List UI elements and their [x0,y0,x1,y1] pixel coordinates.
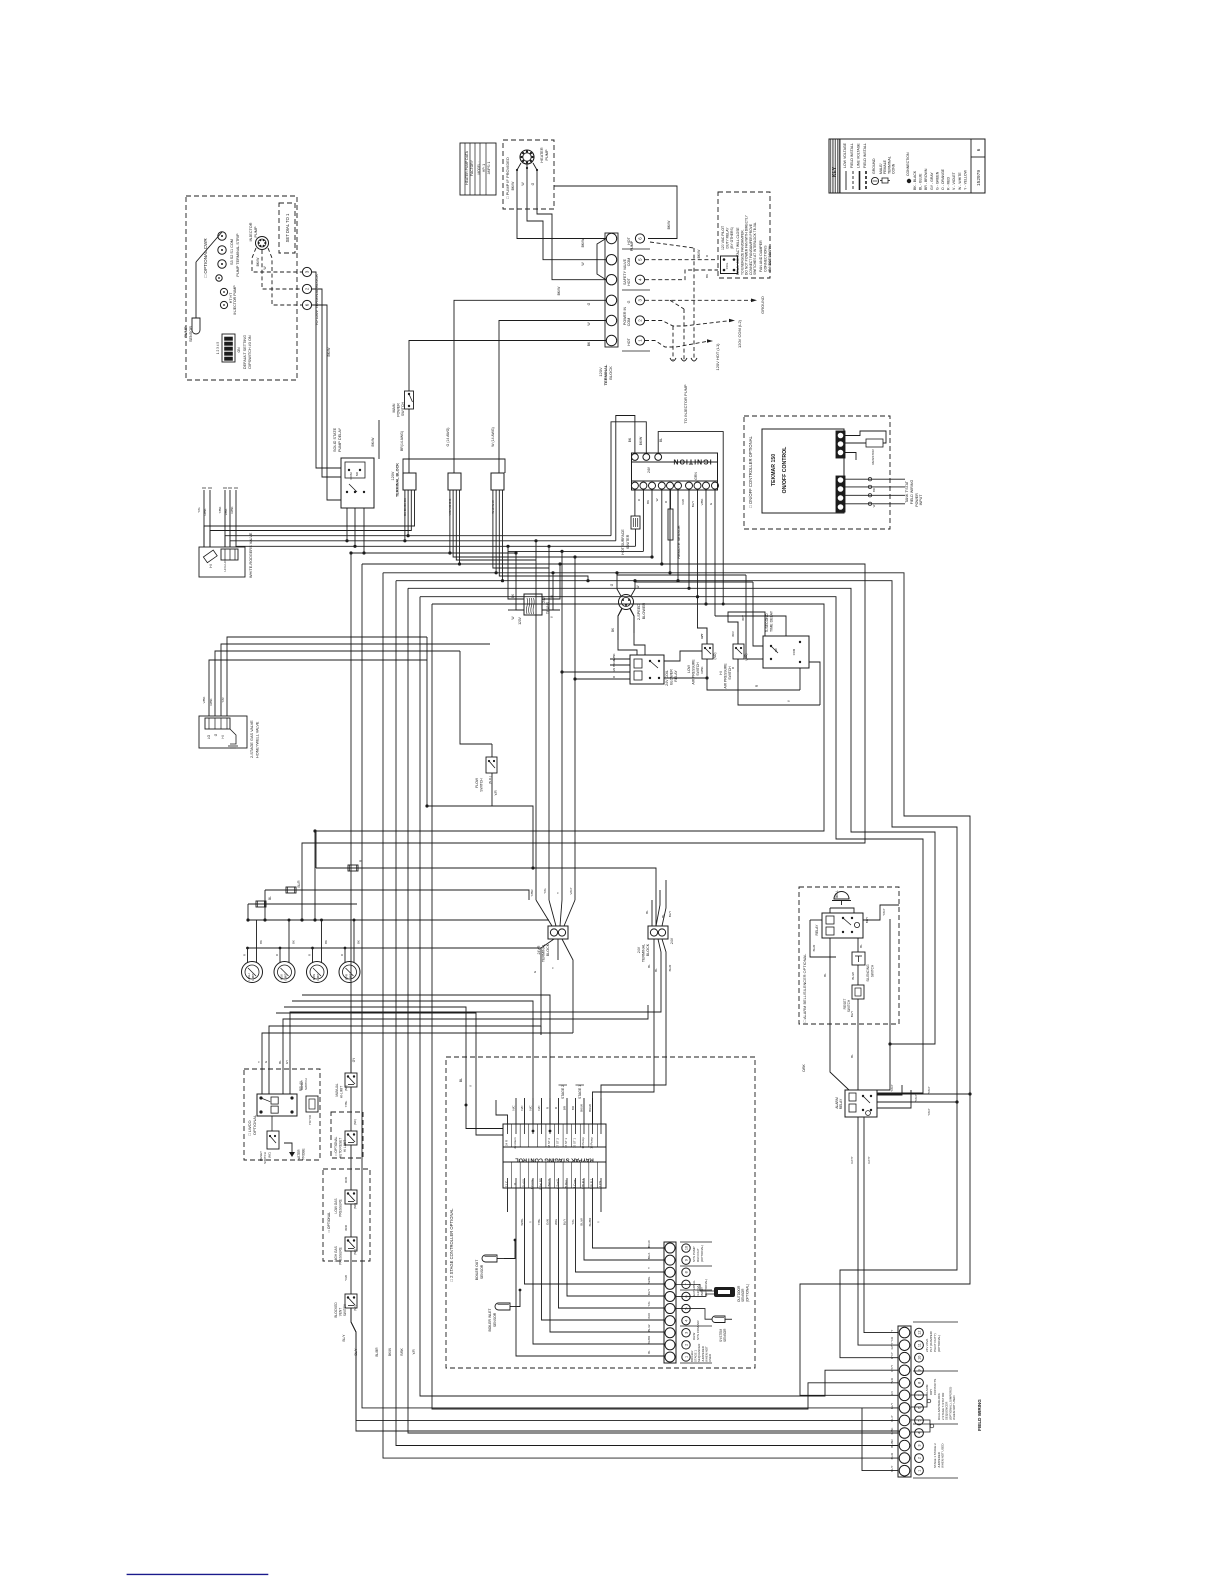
svg-text:GROUND: GROUND [760,296,765,314]
svg-text:BK: BK [292,940,296,944]
svg-text:GRN: GRN [694,472,698,480]
svg-text:2: 2 [305,287,310,290]
svg-text:BELL: BELL [835,890,839,898]
svg-text:SYS COM AIR: SYS COM AIR [696,1320,700,1340]
svg-text:SWITCH: SWITCH [263,1152,267,1164]
svg-text:1 2 3 4 5: 1 2 3 4 5 [216,342,220,355]
svg-text:1: 1 [918,1470,922,1472]
svg-text:COM: COM [349,472,353,480]
svg-text:G (14 AWG): G (14 AWG) [446,428,450,447]
svg-text:N/C: N/C [537,1105,541,1111]
svg-text:SWITCH: SWITCH [304,1078,308,1090]
svg-text:15 ST 1: 15 ST 1 [573,1138,577,1148]
svg-text:Y/BL: Y/BL [537,1218,541,1225]
svg-text:CONN: CONN [892,163,896,174]
svg-text:(NO): (NO) [713,653,717,660]
svg-text:BL: BL [850,1054,854,1058]
svg-text:(OPTIONAL): (OPTIONAL) [704,1279,708,1296]
svg-text:HONEYWELL VALVE: HONEYWELL VALVE [255,721,259,758]
svg-text:Y/W: Y/W [344,1275,348,1281]
svg-text:INJECTOR PUMP: INJECTOR PUMP [233,285,237,315]
svg-text:HI: HI [209,564,213,567]
svg-text:Y - YELLOW: Y - YELLOW [963,169,967,190]
svg-text:□ PUMP IF PROVIDED: □ PUMP IF PROVIDED [505,157,510,199]
svg-text:DUTY RELAY: DUTY RELAY [726,227,730,249]
svg-text:RELAY: RELAY [815,924,819,936]
svg-text:W: W [655,498,659,501]
svg-text:CONNECTION: CONNECTION [906,152,910,176]
svg-text:24V: 24V [647,466,651,473]
svg-text:FIELD INSTALL: FIELD INSTALL [863,143,867,168]
svg-text:R: R [308,954,312,956]
svg-text:24VR: 24VR [537,945,541,954]
svg-text:MAIN: MAIN [392,403,396,412]
svg-text:TO 120V TERMINAL BLOCK: TO 120V TERMINAL BLOCK [314,274,319,326]
svg-text:10: 10 [685,1246,689,1250]
svg-text:SWITCHES AT INTERLOCK TB-5A.: SWITCHES AT INTERLOCK TB-5A. [753,222,757,275]
svg-text:SWITCH: SWITCH [343,1303,347,1316]
svg-text:BL/Y: BL/Y [850,1011,854,1018]
svg-text:8: 8 [918,1382,922,1384]
svg-text:HOT: HOT [627,337,631,345]
svg-text:TO INJECTOR PUMP: TO INJECTOR PUMP [683,384,688,424]
svg-text:BL: BL [645,910,649,914]
svg-text:MODEL :: MODEL : [477,161,481,174]
svg-text:Y: Y [556,892,560,894]
svg-text:CONNECTIONS: CONNECTIONS [764,245,768,272]
svg-text:HOT: HOT [627,277,631,285]
svg-text:NC: NC [774,648,778,652]
svg-text:COIL: COIL [725,262,729,269]
svg-text:Y/G: Y/G [647,1301,651,1307]
svg-text:W (14 AWG): W (14 AWG) [491,427,495,447]
svg-text:10: 10 [918,1356,922,1360]
svg-text:8: 8 [685,1271,689,1273]
svg-text:Y/BR: Y/BR [530,889,534,897]
svg-text:SILENCING: SILENCING [866,964,870,982]
svg-text:BLOCKED: BLOCKED [334,1302,338,1318]
svg-text:ON/OFF CONTROL: ON/OFF CONTROL [782,446,788,494]
svg-text:BK/W: BK/W [256,257,260,266]
svg-text:V/BK: V/BK [700,499,704,506]
svg-text:WHEN NOT USED: WHEN NOT USED [941,1443,945,1468]
svg-text:24 R: 24 R [505,1140,509,1146]
svg-text:6 Sys/S: 6 Sys/S [556,1179,560,1189]
svg-text:S3 S2 S1 COM: S3 S2 S1 COM [230,239,234,265]
svg-text:Y: Y [551,967,555,969]
svg-text:BOILER OUT: BOILER OUT [475,1260,479,1281]
svg-text:DEFAULT SETTING: DEFAULT SETTING [243,335,247,369]
svg-text:BLOWER: BLOWER [642,603,646,620]
svg-text:□ OPTIONAL CWR: □ OPTIONAL CWR [203,238,208,278]
svg-text:BK/W: BK/W [639,436,643,445]
svg-text:BL: BL [647,964,651,968]
svg-text:PROBE: PROBE [302,1148,306,1159]
svg-text:LIMIT: LIMIT [349,973,353,980]
svg-text:BK/A: BK/A [647,1253,651,1260]
svg-text:BL: BL [268,896,272,900]
svg-text:BL/W: BL/W [580,1218,584,1226]
svg-text:(NC): (NC) [268,1152,272,1158]
svg-text:BL: BL [647,1350,651,1354]
svg-text:PRESSURE: PRESSURE [339,1199,343,1217]
svg-text:BL: BL [654,968,658,972]
svg-text:VENT: VENT [339,1308,343,1317]
svg-text:V - VIOLET: V - VIOLET [952,171,956,190]
svg-text:R: R [340,954,344,956]
svg-text:PUMP TERMINAL STRIP: PUMP TERMINAL STRIP [236,233,240,277]
svg-text:SENSOR: SENSOR [493,1312,497,1327]
svg-text:SWITCH: SWITCH [847,999,851,1012]
svg-text:SET DIAL TO 1: SET DIAL TO 1 [285,213,290,242]
svg-text:OPTIONAL: OPTIONAL [252,1114,257,1135]
svg-text:BL - BLUE: BL - BLUE [919,173,923,190]
svg-text:G - GREEN: G - GREEN [935,171,939,190]
svg-text:PUMP: PUMP [254,226,258,237]
svg-text:POWER: POWER [397,403,401,417]
svg-text:Y/R: Y/R [494,790,498,796]
svg-text:11: 11 [513,1182,517,1185]
svg-text:FAN AND DAMPER: FAN AND DAMPER [759,240,763,272]
svg-text:(N.O.): (N.O.) [488,776,492,784]
svg-text:SENSOR: SENSOR [723,1328,727,1342]
svg-text:W/BL: W/BL [647,1276,651,1283]
svg-text:N/C: N/C [529,1105,533,1111]
svg-text:Y: Y [257,1061,261,1063]
svg-text:16 ST 1: 16 ST 1 [564,1138,568,1148]
svg-text:RAYPAK STAGING CONTROL: RAYPAK STAGING CONTROL [515,1157,594,1163]
svg-text:BLOCK: BLOCK [646,943,650,956]
svg-text:BK/W: BK/W [581,238,585,247]
svg-text:Y/GY: Y/GY [914,1094,918,1101]
svg-text:TERMINAL BLOCK: TERMINAL BLOCK [396,463,400,497]
svg-text:(NO): (NO) [353,1203,357,1209]
svg-text:BLOCK: BLOCK [608,366,613,380]
svg-text:TERMINAL: TERMINAL [642,944,646,962]
svg-text:W: W [872,504,876,507]
svg-text:ON: ON [237,347,241,353]
svg-text:BK/W: BK/W [371,437,375,447]
svg-text:3: 3 [305,270,310,273]
svg-text:R/BK: R/BK [230,506,234,513]
svg-text:Y: Y [647,1267,651,1269]
svg-text:Y/GY: Y/GY [890,1084,894,1091]
svg-text:WHITE-RODGERS VALVE: WHITE-RODGERS VALVE [249,532,253,578]
svg-text:(NC): (NC) [353,1249,357,1255]
svg-text:BL/W: BL/W [647,1324,651,1331]
svg-text:□ OPTIONAL: □ OPTIONAL [327,1212,331,1232]
svg-text:5 Out: 5 Out [564,1180,568,1187]
svg-text:R/BK: R/BK [203,508,207,515]
svg-text:4: 4 [685,1320,689,1322]
svg-text:W: W [511,616,515,619]
svg-text:GY/Y: GY/Y [890,1365,894,1372]
svg-text:BK: BK [705,274,709,278]
svg-text:CONTACTS: CONTACTS [933,1379,937,1395]
svg-text:LIMIT: LIMIT [316,973,320,980]
svg-text:HI-LIMIT: HI-LIMIT [340,1086,344,1098]
svg-text:BL/BR: BL/BR [890,1439,894,1447]
svg-text:LOW VOLTAGE: LOW VOLTAGE [843,142,847,168]
svg-text:□ 2 STAGE CONTROLLER OPTIONAL: □ 2 STAGE CONTROLLER OPTIONAL [449,1208,454,1282]
svg-text:COM: COM [627,258,631,266]
svg-text:GY/Y Y/R: GY/Y Y/R [890,1337,894,1349]
svg-text:BL/Y: BL/Y [668,911,672,918]
svg-text:17 ST 2: 17 ST 2 [556,1138,560,1148]
svg-text:120V COM (L2): 120V COM (L2) [737,319,742,348]
svg-text:HIGH GAS: HIGH GAS [334,1246,338,1262]
svg-text:DIPSWITCH #3 ON: DIPSWITCH #3 ON [248,335,252,369]
svg-text:HEATER: HEATER [540,147,544,162]
svg-text:BK: BK [259,940,263,944]
svg-text:12: 12 [918,1330,922,1334]
svg-text:1: 1 [685,1356,689,1358]
svg-text:STAGE 1: STAGE 1 [578,1085,582,1099]
svg-text:BR - BROWN: BR - BROWN [924,168,928,190]
svg-text:BK: BK [357,940,361,944]
svg-text:152979: 152979 [976,170,982,186]
svg-text:R/W: R/W [344,1177,348,1183]
svg-text:Y/GY: Y/GY [927,1108,931,1115]
svg-text:N/C: N/C [520,1105,524,1111]
svg-text:□ OPTIONAL: □ OPTIONAL [334,1136,338,1155]
svg-text:R - RED: R - RED [947,177,951,191]
svg-text:BK/W: BK/W [388,1348,392,1356]
svg-text:USED: USED [708,1354,712,1362]
svg-text:SENSOR: SENSOR [189,326,193,342]
svg-text:HI: HI [221,735,225,738]
svg-text:Y: Y [890,1330,894,1332]
svg-text:RELAY: RELAY [674,670,678,682]
svg-text:1 CS: 1 CS [598,1181,602,1187]
svg-text:GY - GRAY: GY - GRAY [930,172,934,190]
svg-text:24V: 24V [670,937,674,944]
svg-text:FIELD INSTALL: FIELD INSTALL [850,143,854,168]
svg-text:Y/R: Y/R [412,1349,416,1355]
svg-text:4 Com: 4 Com [573,1179,577,1188]
svg-text:BR: BR [872,488,876,492]
svg-text:GN: GN [612,668,616,673]
svg-text:R/Y: R/Y [700,633,704,638]
svg-text:HOT SURFACE: HOT SURFACE [621,529,625,555]
svg-text:BL/Y: BL/Y [647,1289,651,1295]
svg-text:BLOCK: BLOCK [546,943,550,956]
svg-text:FIELD WIRING: FIELD WIRING [910,480,914,505]
svg-text:AMPS: 1: AMPS: 1 [487,161,491,174]
svg-text:W/G: W/G [554,1218,558,1225]
svg-text:Y: Y [529,1221,533,1223]
svg-text:V/BK: V/BK [224,509,228,516]
svg-text:3: 3 [685,1332,689,1334]
svg-text:TANK T'STAT: TANK T'STAT [905,480,909,503]
svg-text:BL/BR: BL/BR [375,1347,379,1357]
svg-text:120V: 120V [518,616,522,624]
svg-text:SAFETY VALVE: SAFETY VALVE [623,258,627,285]
svg-text:G: G [531,182,535,185]
svg-text:BK/W: BK/W [511,181,515,190]
svg-text:BLOWER: BLOWER [670,669,674,685]
svg-text:HI G LO: HI G LO [223,560,227,572]
svg-text:PUMP: PUMP [545,149,549,160]
svg-text:BK/W: BK/W [612,659,616,667]
svg-text:BK/W: BK/W [327,347,331,357]
svg-text:INJECTOR: INJECTOR [249,222,253,241]
svg-text:SOLID STATE: SOLID STATE [333,427,337,452]
svg-text:GY/Y: GY/Y [850,1156,854,1163]
svg-text:TEKMAR 150: TEKMAR 150 [771,454,777,486]
svg-text:BL/R: BL/R [668,964,672,972]
svg-text:AIR PRESSURE: AIR PRESSURE [692,659,696,685]
svg-text:W/O: W/O [647,1312,651,1319]
svg-text:BL/BR: BL/BR [647,1336,651,1344]
svg-text:FACTORY: FACTORY [470,159,474,176]
svg-text:24V: 24V [637,946,641,953]
svg-text:BL/Y: BL/Y [342,1334,346,1342]
svg-text:PUMP DELAY: PUMP DELAY [338,427,342,452]
svg-text:BL: BL [278,1060,282,1064]
svg-text:BK/W: BK/W [647,1240,651,1248]
svg-text:FLOW: FLOW [475,777,479,788]
svg-text:R: R [243,954,247,956]
svg-text:Y/BL: Y/BL [344,1100,348,1107]
svg-text:BL/Y: BL/Y [563,1219,567,1226]
svg-text:AUTO RESET: AUTO RESET [339,1138,343,1158]
svg-text:BL/BR: BL/BR [588,1217,592,1227]
svg-text:Y/G: Y/G [197,507,201,513]
svg-text:BL: BL [661,914,665,918]
svg-text:18 ST 2: 18 ST 2 [547,1138,551,1148]
svg-text:SWITCH: SWITCH [401,402,405,417]
svg-text:(NC): (NC) [353,1305,357,1311]
svg-text:COM: COM [792,648,796,655]
svg-text:W/V: W/V [731,631,735,637]
svg-text:BL: BL [459,1078,463,1082]
svg-text:(NC): (NC) [353,1119,357,1125]
svg-text:COM: COM [627,318,631,326]
svg-text:PUMP: PUMP [184,326,188,337]
svg-text:14 Pump: 14 Pump [581,1137,585,1149]
svg-text:10 +(V): 10 +(V) [522,1179,526,1189]
svg-text:R/BK: R/BK [400,1347,404,1355]
svg-text:N/C: N/C [512,1105,516,1111]
svg-text:V/W: V/W [681,499,685,505]
svg-text:G: G [627,300,631,303]
svg-text:BL: BL [659,438,663,442]
svg-text:BK/W: BK/W [557,286,561,295]
svg-text:120V: 120V [391,471,395,480]
svg-text:R/BK: R/BK [209,698,213,705]
svg-text:□ ON/OFF CONTROLLER OPTIONAL: □ ON/OFF CONTROLLER OPTIONAL [748,436,753,508]
svg-text:V/GY: V/GY [569,887,573,894]
svg-text:8 Bal BR: 8 Bal BR [539,1178,543,1189]
svg-text:LOW GAS: LOW GAS [334,1199,338,1214]
svg-text:V/BK: V/BK [202,697,206,704]
svg-text:GROUND: GROUND [872,158,876,174]
svg-text:6: 6 [976,148,981,151]
svg-text:POWER IN: POWER IN [623,307,627,326]
svg-text:BK: BK [587,341,591,346]
svg-text:IGNITER: IGNITER [626,534,630,549]
svg-text:G: G [587,302,591,305]
svg-text:BK/W: BK/W [697,249,701,258]
svg-text:O/BK: O/BK [802,1063,806,1071]
svg-text:BOILER INLET: BOILER INLET [488,1309,492,1332]
svg-text:BK/W: BK/W [588,1104,592,1112]
svg-text:BL/W: BL/W [851,972,855,980]
svg-text:BL: BL [823,973,827,977]
svg-text:2 BLR 1: 2 BLR 1 [590,1178,594,1189]
svg-text:IF NECESSARY: IF NECESSARY [768,245,772,272]
svg-text:LOW: LOW [687,664,691,673]
svg-text:SWITCH: SWITCH [480,778,484,792]
svg-text:TIME DELAY: TIME DELAY [770,610,774,632]
svg-text:HI: HI [719,671,723,674]
svg-text:KEY: KEY [832,166,838,177]
svg-text:120V HOT (L1): 120V HOT (L1) [715,343,720,371]
svg-text:BL/Y: BL/Y [691,501,695,508]
svg-text:Y: Y [597,1221,601,1223]
svg-text:IGNITION: IGNITION [672,458,711,465]
svg-text:(OPTIONAL): (OPTIONAL) [700,1245,704,1262]
svg-text:BL/R: BL/R [297,880,301,888]
svg-text:W/R: W/R [344,1224,348,1231]
svg-text:STAGE 2: STAGE 2 [561,1085,565,1099]
svg-text:HI LIMIT: HI LIMIT [343,1140,347,1152]
svg-text:BL: BL [859,944,863,948]
svg-text:BK/W: BK/W [667,220,671,229]
svg-text:9: 9 [685,1259,689,1261]
svg-text:□ ALARM BELL/SILENCER OPTIONA: □ ALARM BELL/SILENCER OPTIONAL [802,953,807,1022]
svg-text:SWITCH: SWITCH [871,964,875,977]
svg-text:9 Com/-: 9 Com/- [530,1179,534,1189]
svg-text:Y/G: Y/G [543,888,547,894]
svg-text:FIELD WIRING: FIELD WIRING [977,1399,982,1431]
svg-text:R/BK: R/BK [700,666,704,673]
svg-text:BR(14 AWG): BR(14 AWG) [400,431,404,451]
svg-text:HEATER PUMP DATA: HEATER PUMP DATA [465,150,469,184]
svg-text:W/V: W/V [741,615,745,621]
svg-text:NO: NO [355,471,359,476]
svg-text:23 Alarm: 23 Alarm [513,1137,517,1149]
svg-text:Y/GY: Y/GY [927,1086,931,1093]
svg-text:(OPTIONAL): (OPTIONAL) [937,1335,941,1352]
svg-text:Y/GY: Y/GY [882,908,886,915]
svg-text:AIR PRESSURE: AIR PRESSURE [724,663,728,689]
svg-text:WHEN NOT USED: WHEN NOT USED [952,1395,956,1420]
svg-text:Y/R: Y/R [221,697,225,703]
svg-text:RELAY: RELAY [839,1098,843,1109]
svg-text:BL/Y: BL/Y [354,1348,358,1356]
svg-text:BK - BLACK: BK - BLACK [913,170,917,190]
svg-text:GY: GY [285,1060,289,1064]
svg-text:LIMIT: LIMIT [284,973,288,980]
svg-text:PRESSURE: PRESSURE [339,1247,343,1265]
svg-text:HP: 1: HP: 1 [482,164,486,172]
svg-text:MANUAL: MANUAL [335,1083,339,1097]
svg-text:BL/R: BL/R [812,944,816,952]
svg-text:(NC): (NC) [344,1085,348,1091]
svg-text:11: 11 [918,1343,922,1347]
svg-text:2-SPEED: 2-SPEED [637,604,641,621]
svg-text:RESISTOR: RESISTOR [871,449,875,465]
svg-text:LIMIT: LIMIT [251,973,255,980]
svg-text:INPUT: INPUT [919,494,923,506]
svg-text:7 Bal O: 7 Bal O [547,1178,551,1188]
svg-text:BK: BK [324,940,328,944]
svg-text:6: 6 [305,303,310,306]
svg-text:(OPTIONAL): (OPTIONAL) [745,1284,749,1302]
svg-text:BK: BK [646,500,650,504]
